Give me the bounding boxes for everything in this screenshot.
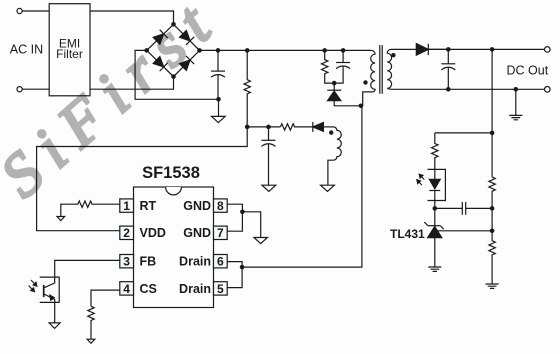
pin box 2 <box>120 226 134 239</box>
wire pin6/pin5 Drain <box>227 262 242 288</box>
junction output cap bottom <box>446 87 451 92</box>
transformer core <box>380 45 382 94</box>
junction snubber R top <box>322 48 327 53</box>
junction startup resistor top <box>245 48 250 53</box>
svg-text:Filter: Filter <box>56 47 83 61</box>
opto LED (points down) <box>429 179 440 189</box>
ground bridge (open triangle) <box>212 116 226 122</box>
optocoupler phototransistor box <box>40 277 60 302</box>
junction VDD cap top <box>266 125 271 130</box>
diode D1 bridge upper-left <box>152 30 167 45</box>
ground RT (small triangle) <box>57 217 65 221</box>
diode D4 bridge lower-right <box>179 56 194 71</box>
svg-text:8: 8 <box>217 199 224 213</box>
diode D3 bridge lower-left <box>152 56 167 71</box>
wire EMI to bridge bottom <box>90 77 174 90</box>
earth ground TL431 <box>428 267 441 271</box>
svg-text:7: 7 <box>217 226 224 240</box>
comp capacitor C5 <box>462 202 465 215</box>
svg-text:6: 6 <box>217 255 224 269</box>
junction feedback branch <box>490 131 495 136</box>
output capacitor C4 bottom lead <box>447 67 449 89</box>
svg-text:4: 4 <box>123 282 130 296</box>
wire VDD node <box>247 126 280 128</box>
junction feedback divider top <box>490 47 495 52</box>
pin box 4 <box>120 282 134 295</box>
junction DC- rail / bulk cap bottom <box>216 97 221 102</box>
svg-text:TL431: TL431 <box>390 227 425 241</box>
terminal AC top <box>17 8 22 13</box>
pin box 5 <box>214 282 228 295</box>
earth ground output <box>509 115 522 119</box>
svg-text:VDD: VDD <box>140 226 166 240</box>
bulk capacitor C1 bottom lead <box>217 75 219 100</box>
junction output ground <box>514 87 519 92</box>
ground VDD cap (open triangle) <box>262 185 276 191</box>
svg-text:GND: GND <box>183 199 211 213</box>
wire pin4 CS <box>91 290 120 306</box>
svg-text:CS: CS <box>140 282 157 296</box>
feedback branch vertical <box>491 49 493 177</box>
wire output bus top <box>428 48 544 50</box>
junction output cap top <box>446 47 451 52</box>
junction snubber RC bottom <box>332 81 337 86</box>
wire to earth ground output <box>515 89 517 115</box>
wire diode to aux winding <box>323 126 333 128</box>
ground CS (small triangle) <box>87 339 95 343</box>
bulk capacitor C1 top lead <box>217 50 219 71</box>
wire bridge left node to DC- rail <box>135 50 218 99</box>
junction GND pins <box>240 210 245 215</box>
phototransistor Q1 <box>43 285 45 297</box>
output diode D7 (points right) <box>416 44 428 56</box>
watermark SiFirst <box>0 0 233 210</box>
junction bridge right node <box>197 48 202 53</box>
VDD capacitor C2 <box>262 139 276 141</box>
diode D5 VDD (points left) <box>313 122 324 132</box>
IC notch <box>166 187 182 195</box>
pin box 8 <box>214 199 228 212</box>
snubber capacitor C3 top lead <box>342 50 344 62</box>
divider resistor R7 upper <box>489 177 495 231</box>
RT resistor R4 and wire pin1 <box>61 201 120 216</box>
pin box 6 <box>214 255 228 268</box>
primary phase dot <box>363 80 367 84</box>
TL431 U2 <box>434 208 436 226</box>
EMI filter box <box>49 4 90 96</box>
CS resistor R5 <box>88 306 94 339</box>
snubber capacitor C3 <box>336 62 350 64</box>
wire VDD down-left to pin2 <box>37 127 248 231</box>
wire LED to TL431 / comp cap <box>435 207 462 209</box>
wire fb branch to opto <box>435 132 492 134</box>
transformer secondary winding <box>387 49 448 89</box>
bridge diamond wires <box>147 24 200 76</box>
junction snubber C top <box>341 48 346 53</box>
svg-text:3: 3 <box>123 255 130 269</box>
output capacitor C4 top lead <box>447 49 449 63</box>
aux winding L1 <box>328 127 341 185</box>
resistor R2 VDD series <box>280 124 312 130</box>
junction drain top <box>359 104 364 109</box>
svg-text:5: 5 <box>217 282 224 296</box>
diode D2 bridge upper-right <box>179 30 194 45</box>
pin box 7 <box>214 226 228 239</box>
opto series resistor R6 <box>432 133 438 179</box>
startup resistor R1 <box>244 50 250 127</box>
svg-text:Drain: Drain <box>179 282 211 296</box>
opto LED box <box>428 169 446 200</box>
aux phase dot <box>329 130 333 134</box>
transformer primary winding <box>363 50 375 105</box>
ground aux (open triangle) <box>321 185 335 191</box>
secondary phase dot <box>391 53 395 57</box>
TL431 ref wire <box>437 230 492 232</box>
junction VDD node left <box>245 125 250 130</box>
svg-text:Drain: Drain <box>179 255 211 269</box>
opto LED emission arrows <box>417 174 425 185</box>
svg-text:FB: FB <box>140 255 157 269</box>
junction bridge top node <box>171 22 176 27</box>
wire AC bottom to EMI <box>22 88 49 90</box>
wire DC- to ground <box>218 99 220 116</box>
junction bridge bottom node <box>171 74 176 79</box>
wire output bus bottom <box>448 88 544 90</box>
junction bridge left node <box>144 48 149 53</box>
pin box 1 <box>120 199 134 212</box>
output capacitor C4 <box>441 63 455 65</box>
junction divider / TL431 ref <box>490 229 495 234</box>
VDD capacitor C2 bottom lead <box>268 144 270 185</box>
wire drain to transformer <box>242 106 362 267</box>
snubber resistor R3 <box>322 50 335 83</box>
wire pin8 GND <box>227 204 242 231</box>
pin box 3 <box>120 255 134 268</box>
ground phototransistor (open triangle) <box>49 323 60 329</box>
svg-text:1: 1 <box>123 199 130 213</box>
svg-text:AC IN: AC IN <box>10 43 43 57</box>
divider resistor R8 lower <box>489 231 495 284</box>
VDD capacitor C2 top lead <box>268 127 270 140</box>
wire EMI to bridge top <box>90 11 174 24</box>
svg-text:GND: GND <box>183 226 211 240</box>
terminal AC bottom <box>17 87 22 92</box>
terminal DC Out - <box>545 87 551 93</box>
wire GND to ground <box>242 212 260 238</box>
wire pin3 FB to opto <box>55 260 120 277</box>
wire AC top to EMI <box>22 10 49 12</box>
ground IC (open triangle) <box>254 238 268 244</box>
clamp diode D6 (points up) <box>333 83 335 91</box>
svg-text:RT: RT <box>140 199 157 213</box>
junction Drain pins <box>240 265 245 270</box>
terminal DC Out + <box>545 47 551 53</box>
phototransistor light arrows <box>29 280 37 292</box>
junction LED cathode / comp cap <box>433 206 438 211</box>
svg-text:SF1538: SF1538 <box>142 164 200 182</box>
svg-text:2: 2 <box>123 226 130 240</box>
svg-text:DC Out: DC Out <box>507 63 549 77</box>
wire DC+ bus <box>200 49 372 51</box>
bulk capacitor C1 <box>211 70 225 72</box>
IC U1 body <box>134 187 214 308</box>
junction divider / comp cap <box>490 206 495 211</box>
earth ground divider <box>486 284 499 288</box>
junction bulk cap top <box>216 48 221 53</box>
snubber capacitor C3 bottom lead <box>334 66 343 83</box>
